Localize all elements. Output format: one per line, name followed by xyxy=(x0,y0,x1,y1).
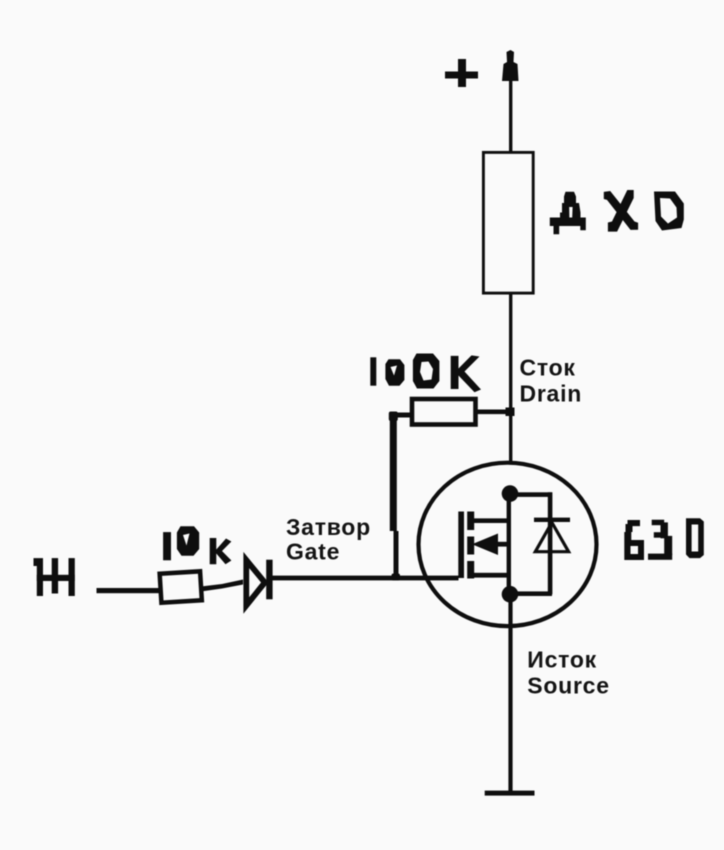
value label 100K xyxy=(370,354,481,393)
gate wire diode to MOSFET xyxy=(273,576,459,581)
body diode branch bottom wire xyxy=(512,591,552,596)
svg-text:Исток: Исток xyxy=(527,647,597,673)
svg-text:Затвор: Затвор xyxy=(286,514,371,540)
power plus sign xyxy=(445,59,478,87)
resistor 100K left lead + vertical down to gate xyxy=(390,413,412,580)
load ДХО rectangle xyxy=(483,152,533,293)
value label 10к xyxy=(163,526,231,564)
MOSFET substrate arrow xyxy=(472,534,498,556)
transistor Q1 body circle xyxy=(419,463,597,626)
junction blob 100K lead to gate wire xyxy=(392,574,401,581)
svg-text:Source: Source xyxy=(527,673,609,699)
wire input to 10k resistor xyxy=(97,588,162,593)
resistor R 10k body xyxy=(160,571,202,602)
source node dot xyxy=(502,586,519,603)
label ДХО xyxy=(550,190,684,234)
diode D1 triangle xyxy=(246,560,264,606)
svg-text:Drain: Drain xyxy=(520,381,583,407)
resistor R 100K body xyxy=(412,399,476,425)
svg-text:Gate: Gate xyxy=(286,539,340,565)
input signal symbol xyxy=(34,558,75,596)
MOSFET channel bar segment middle xyxy=(467,537,474,555)
MOSFET source stub xyxy=(473,573,509,578)
label 630 xyxy=(624,518,704,560)
power arrow (supply +) xyxy=(502,50,519,81)
wire source dot to ground xyxy=(508,594,512,793)
wire load to transistor circle xyxy=(509,293,512,464)
body diode triangle xyxy=(535,523,568,552)
junction blob 100K lead corner xyxy=(389,412,398,422)
body diode branch top wire xyxy=(512,492,552,497)
MOSFET drain stub xyxy=(473,518,508,523)
MOSFET substrate stub xyxy=(495,542,510,547)
wire 10k to diode xyxy=(201,580,243,592)
resistor 100K right lead xyxy=(474,410,512,415)
wire arrow to load xyxy=(509,80,512,152)
svg-text:Сток: Сток xyxy=(520,355,576,381)
MOSFET channel bar segment top xyxy=(467,512,474,531)
body diode cathode bar xyxy=(534,518,570,522)
junction 100K/drain wire xyxy=(506,408,515,417)
diode D1 cathode bar xyxy=(266,560,272,600)
ground bar xyxy=(485,791,535,796)
body diode branch vertical wire xyxy=(548,492,553,594)
MOSFET channel bar segment bottom xyxy=(467,561,474,579)
MOSFET gate bar xyxy=(458,512,464,579)
drain node dot xyxy=(502,485,519,502)
wire drain dot to source dot xyxy=(507,493,511,594)
